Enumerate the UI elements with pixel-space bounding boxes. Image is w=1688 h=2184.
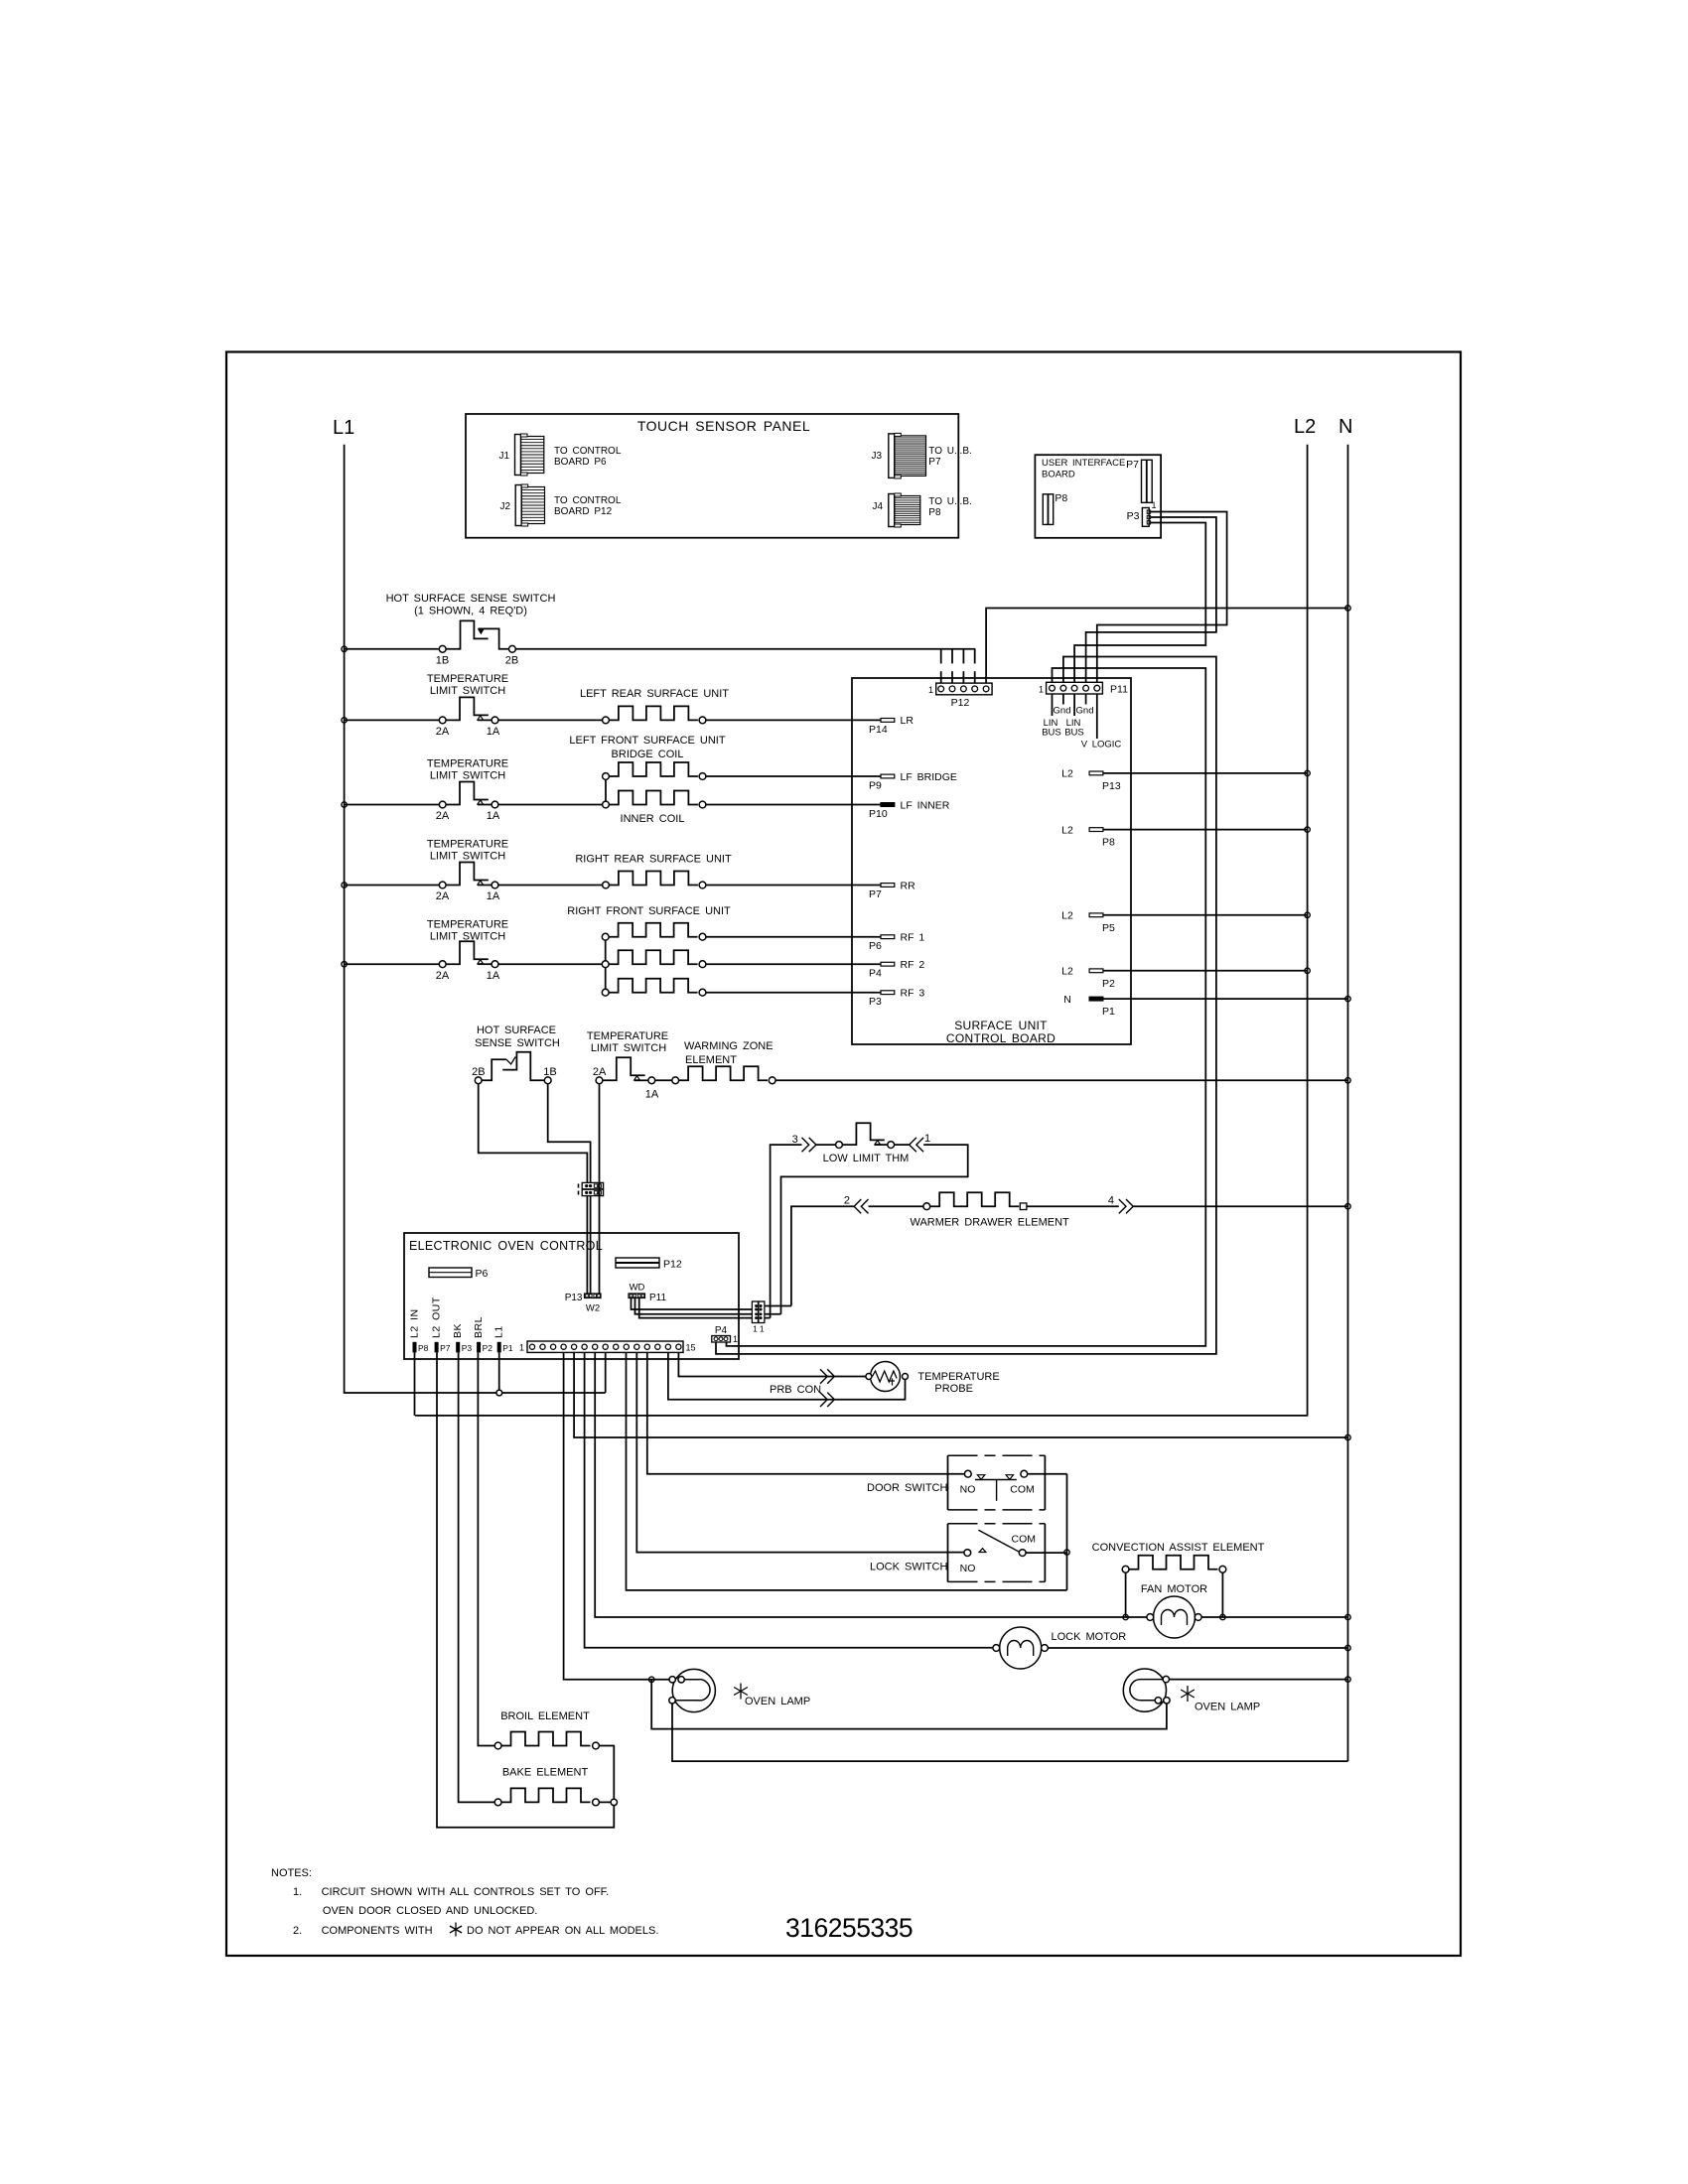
wire convection element risers — [1126, 1572, 1223, 1617]
svg-text:P12: P12 — [951, 697, 970, 709]
svg-text:P12: P12 — [663, 1259, 682, 1271]
wire UIB P3 pin2 to SUCB P11 pin4 — [1086, 517, 1216, 682]
svg-text:PROBE: PROBE — [934, 1383, 973, 1395]
surface unit control board box — [852, 678, 1131, 1045]
connector P12 (SUCB) — [928, 683, 992, 709]
svg-text:LIMIT SWITCH: LIMIT SWITCH — [430, 770, 505, 782]
svg-text:2A: 2A — [436, 810, 450, 822]
wire fan motor to N — [1201, 1616, 1347, 1618]
svg-text:SENSE SWITCH: SENSE SWITCH — [475, 1037, 560, 1049]
convection assist element — [1122, 1556, 1226, 1572]
door switch box — [948, 1455, 1046, 1510]
junction broil/bake right — [611, 1799, 617, 1805]
svg-text:2A: 2A — [593, 1066, 607, 1078]
right front surface unit element RF1 — [602, 923, 706, 940]
pin P3 (EOC) BK — [452, 1323, 472, 1353]
svg-text:LOCK MOTOR: LOCK MOTOR — [1052, 1631, 1127, 1643]
hot surface sense switch (1B/2B) — [436, 620, 518, 666]
svg-text:HOT SURFACE: HOT SURFACE — [477, 1024, 556, 1036]
wire EOC WD pin1 to T1 — [632, 1298, 753, 1310]
svg-text:P14: P14 — [869, 724, 888, 736]
wire L2 bus — [415, 445, 1308, 1416]
wire broil right to bake junction — [599, 1746, 614, 1800]
wire row3 from L1 — [345, 804, 440, 806]
svg-text:N: N — [1063, 994, 1071, 1006]
junction fan wire on N — [1345, 1614, 1350, 1619]
asterisk in note 2 — [450, 1923, 462, 1937]
pin P8 (EOC) L2 IN — [409, 1308, 429, 1353]
wire EOC WD pin3 to T1 — [639, 1298, 753, 1318]
svg-text:3: 3 — [792, 1134, 798, 1146]
svg-text:N: N — [1338, 416, 1352, 438]
connector P3 (UIB) — [1127, 500, 1157, 526]
svg-text:CONTROL BOARD: CONTROL BOARD — [946, 1031, 1055, 1045]
wire broil left to EOC P2 — [478, 1352, 494, 1745]
svg-text:COMPONENTS WITH: COMPONENTS WITH — [322, 1925, 433, 1937]
wire warming element to N — [775, 1079, 1347, 1081]
wire SUCB P8 to L2 — [1103, 829, 1308, 831]
svg-text:2.: 2. — [293, 1925, 302, 1937]
wire RF1 to P6 — [706, 936, 881, 938]
right rear surface unit element — [603, 872, 706, 888]
svg-text:L2 IN: L2 IN — [409, 1308, 421, 1338]
svg-text:1: 1 — [733, 1334, 738, 1344]
wire EOC pin6 to lock motor — [585, 1352, 993, 1647]
temperature probe — [866, 1362, 909, 1392]
wire EOC pin14 to probe (PRB CON bottom) — [668, 1352, 906, 1399]
door switch contacts NO / COM — [960, 1470, 1035, 1501]
pin P4 (SUCB) RF 2 — [869, 959, 924, 980]
label J2: TO CONTROL BOARD P12 — [554, 495, 622, 517]
wire RF2 to P4 — [706, 963, 881, 965]
svg-text:FAN MOTOR: FAN MOTOR — [1141, 1583, 1207, 1595]
connector arrow 4 (warmer drawer) — [1108, 1195, 1133, 1214]
wire EOC P8 (L2 IN) to L2 bus — [414, 1352, 416, 1416]
wire arrow2 to warmer element — [869, 1205, 923, 1207]
svg-text:TO CONTROL: TO CONTROL — [554, 446, 622, 457]
pin P9 (SUCB) LF BRIDGE — [869, 771, 957, 792]
svg-text:L2: L2 — [1061, 910, 1073, 922]
low limit THM switch — [836, 1123, 895, 1148]
pin P13 (SUCB) L2 — [1061, 768, 1121, 792]
label temperature limit switch (warming) — [587, 1030, 668, 1054]
svg-text:P10: P10 — [869, 808, 888, 820]
svg-text:CIRCUIT SHOWN WITH ALL CONTROL: CIRCUIT SHOWN WITH ALL CONTROLS SET TO O… — [322, 1886, 610, 1898]
svg-text:OVEN LAMP: OVEN LAMP — [745, 1696, 810, 1707]
svg-text:1: 1 — [760, 1324, 765, 1334]
wire door COM to riser — [1028, 1474, 1067, 1590]
svg-text:TEMPERATURE: TEMPERATURE — [427, 839, 508, 851]
wire arrow3 to THM — [816, 1144, 836, 1146]
wire lock COM to riser — [1026, 1552, 1066, 1554]
pin P7 (EOC) L2 OUT — [431, 1297, 451, 1353]
svg-text:V LOGIC: V LOGIC — [1081, 740, 1122, 751]
touch sensor panel box — [466, 414, 958, 538]
svg-text:P1: P1 — [502, 1343, 513, 1353]
svg-text:COM: COM — [1012, 1534, 1037, 1546]
svg-text:P3: P3 — [869, 996, 882, 1008]
junction row4 on L1 — [342, 883, 347, 887]
svg-text:2B: 2B — [505, 655, 518, 667]
svg-text:BOARD P6: BOARD P6 — [554, 457, 607, 468]
svg-text:P7: P7 — [869, 888, 882, 900]
svg-text:TEMPERATURE: TEMPERATURE — [587, 1030, 668, 1042]
wire warming switch to element — [655, 1079, 672, 1081]
svg-text:P3: P3 — [1127, 510, 1140, 522]
wire lock motor to N — [1048, 1647, 1347, 1649]
svg-text:P4: P4 — [869, 968, 882, 980]
pin P1 (EOC) L1 — [493, 1325, 513, 1353]
junction P12-pin5 wire on N — [1345, 606, 1350, 611]
svg-text:TO U.I.B.: TO U.I.B. — [928, 446, 972, 457]
svg-text:BRL: BRL — [473, 1316, 485, 1338]
wire T1 to THM loop — [765, 1313, 781, 1315]
junction row5 on L1 — [342, 962, 347, 967]
bake element — [494, 1788, 599, 1805]
wire SUCB P11 pin1 to plug T1 — [727, 668, 1206, 1346]
pin P10 (SUCB) LF INNER — [869, 799, 950, 820]
wire SUCB P1 to N — [1103, 998, 1348, 1000]
svg-text:P2: P2 — [483, 1343, 493, 1353]
wire row4 element to P7 — [706, 885, 881, 887]
svg-text:P2: P2 — [1102, 978, 1115, 990]
wire row4 from L1 — [345, 885, 440, 887]
connector P13 / W2 (EOC) — [565, 1293, 601, 1314]
svg-text:Gnd: Gnd — [1076, 706, 1094, 717]
connector arrows PRB CON — [770, 1369, 834, 1407]
junction P2 wire on L2 — [1305, 968, 1310, 973]
label temperature probe — [917, 1371, 999, 1395]
wire N bus — [1347, 445, 1349, 1761]
wire T1 to warmer drawer leg — [765, 1305, 791, 1307]
svg-text:BUS: BUS — [1042, 728, 1061, 739]
wire row3 switch to inner coil — [498, 804, 603, 806]
left rear surface unit element — [603, 706, 706, 723]
connector T1 double plug — [752, 1301, 765, 1334]
svg-text:LOCK SWITCH: LOCK SWITCH — [870, 1562, 947, 1573]
wire row5 from L1 — [345, 963, 440, 965]
temperature limit switch row5 (2A/1A) — [436, 941, 500, 982]
svg-text:2B: 2B — [472, 1066, 485, 1078]
pin P6 (SUCB) RF 1 — [869, 932, 924, 953]
wire row5 switch to riser — [498, 963, 606, 965]
asterisk right lamp — [1181, 1686, 1195, 1702]
connector J3 — [871, 433, 925, 478]
wire row2 switch to element — [498, 719, 603, 721]
svg-text:1A: 1A — [487, 970, 500, 982]
svg-text:L1: L1 — [333, 417, 354, 439]
svg-text:1: 1 — [1039, 685, 1044, 695]
junction warming wire on N — [1345, 1078, 1350, 1083]
svg-text:1B: 1B — [436, 655, 449, 667]
svg-text:P7: P7 — [928, 457, 941, 468]
electronic oven control box — [404, 1233, 739, 1359]
svg-text:RF 2: RF 2 — [901, 959, 925, 971]
pin P1 (SUCB) N — [1063, 994, 1115, 1018]
svg-text:1: 1 — [1152, 500, 1157, 510]
svg-text:W2: W2 — [586, 1303, 600, 1314]
svg-text:TEMPERATURE: TEMPERATURE — [427, 919, 508, 931]
junction left lamp feed — [649, 1677, 654, 1682]
svg-text:RIGHT REAR SURFACE UNIT: RIGHT REAR SURFACE UNIT — [575, 854, 732, 866]
junction P8 wire on L2 — [1305, 827, 1310, 832]
svg-text:P11: P11 — [1110, 684, 1128, 696]
wire SUCB P11 pin2 to plug T1 — [716, 657, 1216, 1354]
wire bridge coil to P9 — [706, 775, 881, 777]
svg-text:DO NOT APPEAR ON ALL MODELS.: DO NOT APPEAR ON ALL MODELS. — [467, 1925, 658, 1937]
svg-text:RF 3: RF 3 — [901, 988, 925, 1000]
wire EOC pin12 to door switch NO — [647, 1352, 965, 1473]
svg-text:LIMIT SWITCH: LIMIT SWITCH — [430, 685, 505, 697]
svg-text:PRB CON: PRB CON — [770, 1384, 821, 1396]
svg-text:TOUCH SENSOR PANEL: TOUCH SENSOR PANEL — [637, 418, 810, 434]
svg-text:LIMIT SWITCH: LIMIT SWITCH — [591, 1042, 666, 1054]
connector WD / P11 (EOC) — [629, 1283, 666, 1304]
wire low limit THM return loop — [781, 1145, 968, 1314]
svg-text:L2: L2 — [1061, 824, 1073, 836]
connector P6 (EOC) — [429, 1268, 489, 1280]
pin P5 (SUCB) L2 — [1061, 910, 1115, 934]
connector pin row (EOC) — [519, 1341, 696, 1353]
wire T1 to THM left leg — [765, 1317, 771, 1319]
junction P13 wire on L2 — [1305, 770, 1310, 775]
wire bridge coil to inner coil (riser) — [605, 779, 607, 801]
wire UIB P3 pin3 to SUCB P11 pin3 — [1074, 523, 1205, 683]
wire EOC pin7 to fan motor line — [595, 1352, 1147, 1617]
temperature limit switch row4 (2A/1A) — [436, 863, 500, 903]
svg-text:1A: 1A — [487, 890, 500, 902]
svg-text:OVEN LAMP: OVEN LAMP — [1195, 1702, 1260, 1713]
svg-text:1: 1 — [519, 1343, 524, 1353]
svg-text:1: 1 — [924, 1133, 930, 1145]
svg-text:P8: P8 — [418, 1343, 429, 1353]
junction convection risers on fan wire — [1123, 1614, 1128, 1619]
wire left lamp bottom to N bottom — [672, 1704, 1348, 1761]
svg-text:COM: COM — [1010, 1484, 1035, 1496]
junction pin5 wire on N — [1345, 1434, 1350, 1439]
label J4: TO U.I.B. P8 — [928, 496, 972, 518]
svg-text:P3: P3 — [462, 1343, 473, 1353]
wire row1 from L1 — [345, 648, 440, 650]
temperature limit switch row3 (2A/1A) — [436, 782, 500, 823]
inner coil element — [603, 791, 706, 808]
pin P14 (SUCB) LR — [869, 715, 914, 736]
svg-text:TEMPERATURE: TEMPERATURE — [427, 673, 508, 685]
svg-text:TEMPERATURE: TEMPERATURE — [427, 758, 508, 770]
user interface board box — [1035, 455, 1161, 538]
svg-text:BAKE ELEMENT: BAKE ELEMENT — [502, 1767, 589, 1779]
svg-text:TO CONTROL: TO CONTROL — [554, 495, 622, 506]
svg-text:P8: P8 — [928, 507, 941, 518]
wire warmer element to arrow 4 — [1027, 1205, 1119, 1207]
svg-text:P8: P8 — [1055, 492, 1067, 504]
svg-text:TO U.I.B.: TO U.I.B. — [928, 496, 972, 507]
temperature limit switch (warming 2A/1A) — [593, 1057, 659, 1100]
svg-text:BK: BK — [452, 1323, 464, 1338]
junction row3 on L1 — [342, 802, 347, 807]
svg-text:WD: WD — [630, 1283, 645, 1294]
svg-text:RIGHT FRONT SURFACE UNIT: RIGHT FRONT SURFACE UNIT — [567, 905, 731, 917]
svg-text:ELEMENT: ELEMENT — [685, 1054, 737, 1066]
connector P11 (SUCB) — [1039, 682, 1128, 695]
connector J1 — [498, 434, 543, 476]
label warming zone element — [684, 1040, 774, 1066]
svg-text:HOT SURFACE SENSE SWITCH: HOT SURFACE SENSE SWITCH — [386, 593, 556, 605]
svg-text:Gnd: Gnd — [1054, 706, 1071, 717]
connector P12 (EOC) — [616, 1258, 682, 1271]
wire SUCB P13 to L2 — [1103, 772, 1308, 774]
svg-text:NOTES:: NOTES: — [271, 1867, 312, 1879]
connector P4 (EOC) — [712, 1325, 738, 1344]
svg-text:L2: L2 — [1061, 966, 1073, 978]
wire right front riser — [605, 937, 607, 993]
label J3: TO U.I.B. P7 — [928, 446, 972, 468]
wire L1 bus — [345, 445, 606, 1393]
wire bake right to junction — [599, 1801, 611, 1803]
hot surface sense switch (2B/1B warming) — [472, 1052, 557, 1084]
wire L1 feed to EOC pin8 — [496, 1352, 606, 1396]
pin P2 (EOC) BRL — [473, 1316, 492, 1353]
wire bake junction to EOC P7 (L2 OUT) — [437, 1352, 614, 1827]
wire warmer drawer left leg — [791, 1206, 854, 1305]
svg-text:L1: L1 — [493, 1325, 505, 1338]
connector P8 (UIB) — [1043, 492, 1067, 524]
lock switch contacts NO / COM — [960, 1530, 1036, 1574]
pin P7 (SUCB) RR — [869, 880, 915, 900]
svg-text:L2: L2 — [1061, 768, 1073, 780]
wire EOC WD pin2 to T1 — [635, 1298, 753, 1314]
label temperature limit switch row2 — [427, 673, 508, 697]
wire row4 switch to element — [498, 885, 603, 887]
svg-text:WARMER DRAWER ELEMENT: WARMER DRAWER ELEMENT — [911, 1217, 1070, 1229]
wire row2 element to P14 — [706, 719, 881, 721]
svg-text:L2 OUT: L2 OUT — [431, 1297, 443, 1338]
svg-text:LEFT FRONT SURFACE UNIT: LEFT FRONT SURFACE UNIT — [569, 735, 725, 747]
svg-text:4: 4 — [1108, 1195, 1114, 1207]
label temperature limit switch row4 — [427, 839, 508, 863]
svg-text:OVEN DOOR CLOSED AND UNLOCKED.: OVEN DOOR CLOSED AND UNLOCKED. — [323, 1905, 537, 1917]
right front surface unit element RF3 — [602, 979, 706, 996]
svg-text:P8: P8 — [1102, 837, 1115, 849]
svg-text:P11: P11 — [649, 1293, 666, 1303]
svg-text:CONVECTION ASSIST ELEMENT: CONVECTION ASSIST ELEMENT — [1092, 1542, 1265, 1554]
oven lamp right — [1123, 1669, 1170, 1711]
svg-text:BOARD P12: BOARD P12 — [554, 506, 613, 517]
svg-text:J1: J1 — [498, 451, 509, 462]
svg-text:NO: NO — [960, 1484, 976, 1496]
label J1: TO CONTROL BOARD P6 — [554, 446, 622, 468]
svg-text:2A: 2A — [436, 726, 450, 738]
connector P7 (UIB) — [1126, 459, 1152, 502]
pin P2 (SUCB) L2 — [1061, 966, 1115, 990]
svg-text:USER INTERFACE: USER INTERFACE — [1042, 458, 1125, 469]
label left front surface unit / bridge coil — [569, 735, 725, 760]
wire warming 2A down to EOC P13 — [599, 1084, 601, 1294]
junction P5 wire on L2 — [1305, 912, 1310, 917]
svg-text:2A: 2A — [436, 890, 450, 902]
wire low limit THM left leg — [771, 1145, 802, 1318]
junction P1 wire on N — [1345, 996, 1350, 1001]
svg-text:DOOR SWITCH: DOOR SWITCH — [867, 1482, 947, 1494]
label hot surface sense switch (warming) — [475, 1024, 560, 1049]
svg-text:BROIL ELEMENT: BROIL ELEMENT — [500, 1710, 590, 1722]
svg-text:2A: 2A — [436, 970, 450, 982]
svg-text:J4: J4 — [872, 501, 883, 512]
svg-text:BOARD: BOARD — [1042, 470, 1075, 480]
svg-text:TEMPERATURE: TEMPERATURE — [917, 1371, 999, 1383]
wire THM to arrow 1 — [895, 1144, 910, 1146]
connector arrow 1 (low limit) — [910, 1133, 930, 1152]
svg-text:1B: 1B — [543, 1066, 556, 1078]
connector W2 plug — [579, 1182, 604, 1195]
connector J4 — [872, 493, 919, 527]
junction row1 on L1 — [342, 646, 347, 651]
wire EOC pin15 to probe (PRB CON top) — [678, 1352, 866, 1376]
label temperature limit switch row5 — [427, 919, 508, 943]
svg-text:1A: 1A — [487, 726, 500, 738]
warmer drawer element — [923, 1192, 1027, 1209]
svg-text:1A: 1A — [645, 1089, 659, 1101]
lock switch box — [948, 1524, 1046, 1582]
wire SUCB P12 pin5 to N — [986, 609, 1347, 684]
wire UIB P3 pin1 to SUCB P11 pin5 — [1097, 512, 1227, 683]
svg-text:BUS: BUS — [1064, 728, 1084, 739]
svg-text:1.: 1. — [293, 1886, 302, 1898]
svg-text:P4: P4 — [715, 1325, 728, 1336]
svg-text:LIMIT SWITCH: LIMIT SWITCH — [430, 851, 505, 863]
svg-text:LOW LIMIT THM: LOW LIMIT THM — [823, 1153, 910, 1164]
junction row2 on L1 — [342, 718, 347, 723]
svg-text:P5: P5 — [1102, 922, 1115, 934]
asterisk left lamp — [734, 1684, 748, 1700]
svg-text:1A: 1A — [487, 810, 500, 822]
svg-text:P1: P1 — [1102, 1006, 1115, 1018]
wire right lamp to N — [1170, 1679, 1348, 1681]
pin P3 (SUCB) RF 3 — [869, 988, 924, 1009]
svg-text:P6: P6 — [476, 1268, 489, 1280]
temperature limit switch row2 (2A/1A) — [436, 697, 500, 738]
svg-text:LEFT REAR SURFACE UNIT: LEFT REAR SURFACE UNIT — [580, 688, 729, 700]
svg-text:RR: RR — [901, 880, 916, 891]
wire row1 to SUCB P12 pins — [515, 649, 975, 683]
lock motor — [993, 1627, 1049, 1669]
svg-text:NO: NO — [960, 1563, 976, 1574]
wire warming 1B down to W2 plug — [548, 1084, 591, 1183]
connector arrow 2 (warmer drawer) — [844, 1195, 869, 1214]
svg-text:RF 1: RF 1 — [901, 932, 925, 944]
svg-text:316255335: 316255335 — [785, 1913, 913, 1943]
junction warmer drawer wire on N — [1345, 1204, 1350, 1209]
right front surface unit element RF2 — [602, 950, 706, 967]
svg-text:2: 2 — [844, 1195, 850, 1207]
connector J2 — [499, 484, 544, 526]
svg-text:LF INNER: LF INNER — [901, 799, 950, 811]
warming zone element — [672, 1066, 775, 1083]
svg-text:J2: J2 — [499, 501, 510, 512]
svg-text:LF BRIDGE: LF BRIDGE — [901, 771, 957, 783]
wire EOC pin5 to N — [574, 1352, 1347, 1437]
svg-text:(1 SHOWN, 4 REQ'D): (1 SHOWN, 4 REQ'D) — [414, 606, 527, 617]
P11 pin stubs and labels Gnd / LIN BUS / V LOGIC — [1042, 694, 1121, 751]
svg-text:BRIDGE COIL: BRIDGE COIL — [612, 749, 684, 760]
wire left lamp junction to right lamp bottom — [651, 1680, 1167, 1729]
wire inner coil to P10 — [706, 804, 881, 806]
svg-text:SURFACE UNIT: SURFACE UNIT — [954, 1019, 1048, 1032]
svg-text:1: 1 — [753, 1324, 758, 1334]
svg-text:WARMING ZONE: WARMING ZONE — [684, 1040, 774, 1052]
wire row2 from L1 — [345, 719, 440, 721]
connector arrow 3 (low limit) — [792, 1134, 816, 1152]
